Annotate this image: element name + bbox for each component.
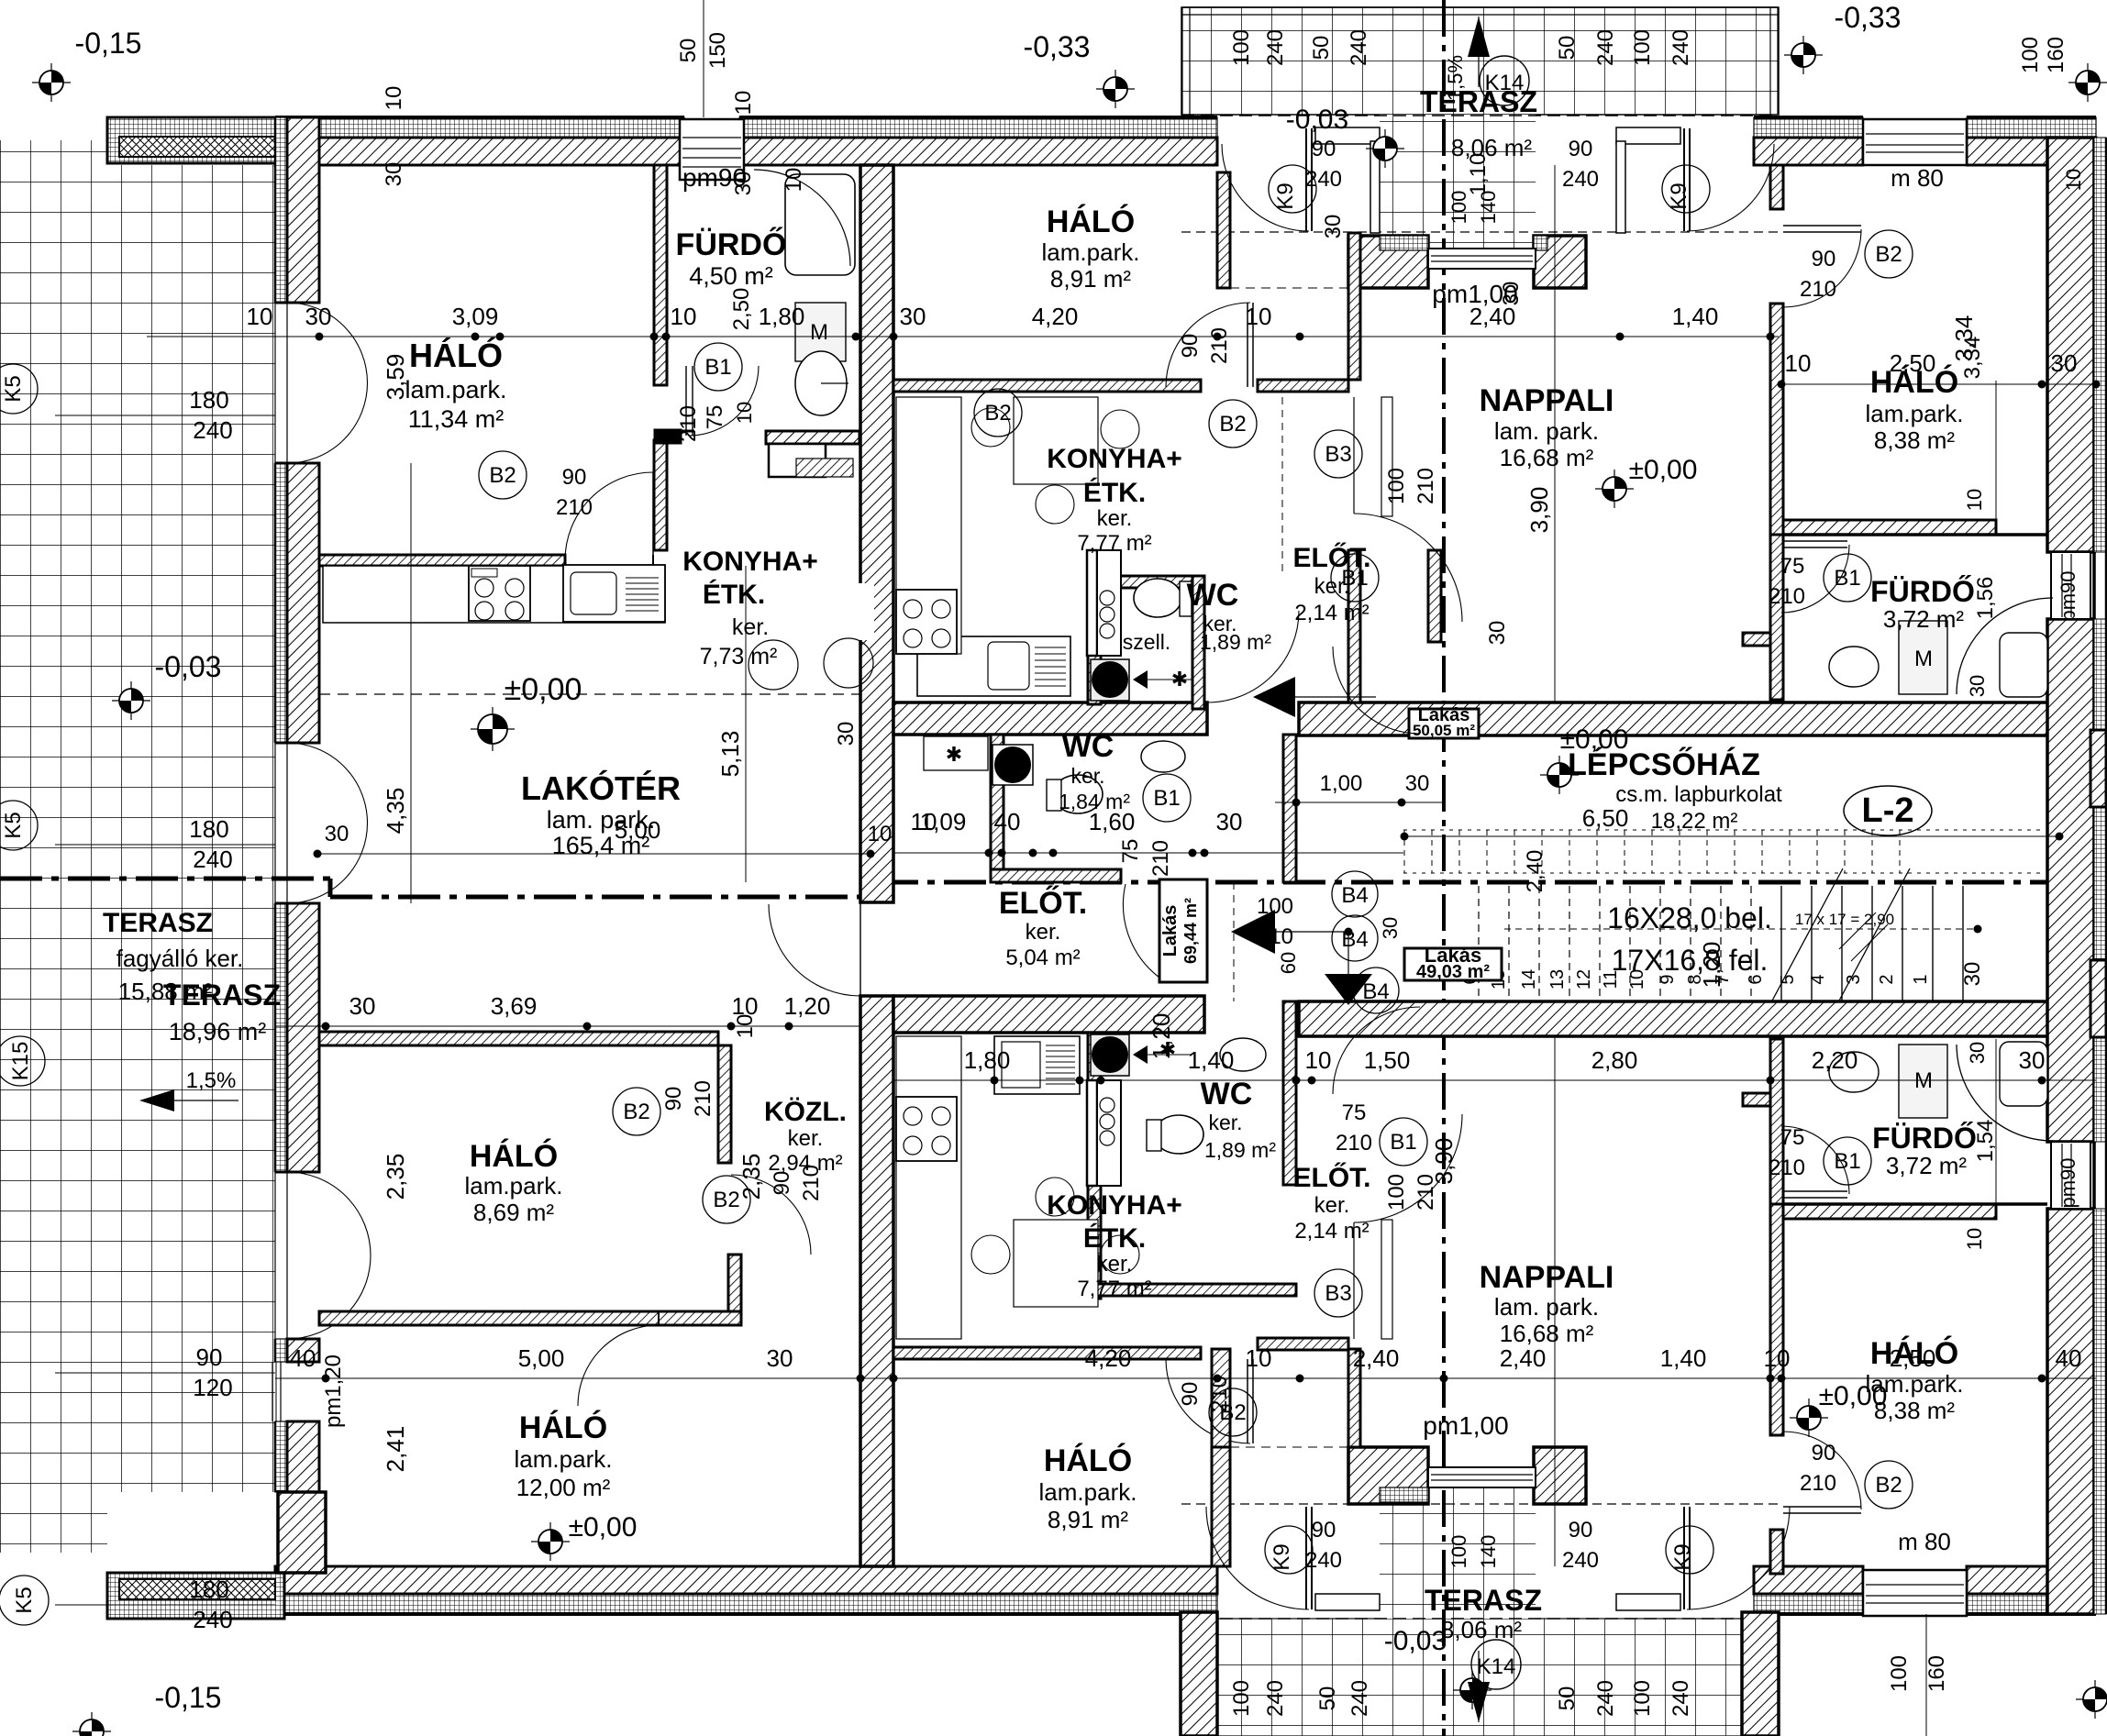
door B3 upper ELOT: [1353, 397, 1355, 514]
svg-text:lam.park.: lam.park.: [1866, 400, 1964, 427]
svg-text:69,44 m²: 69,44 m²: [1181, 898, 1200, 964]
svg-text:KONYHA+: KONYHA+: [1047, 1190, 1182, 1221]
svg-text:210: 210: [799, 1165, 824, 1201]
svg-text:10: 10: [2062, 169, 2085, 191]
svg-text:90: 90: [1312, 137, 1336, 161]
svg-text:B2: B2: [1875, 242, 1902, 267]
svg-text:210: 210: [1414, 1174, 1438, 1211]
svg-text:2,35: 2,35: [382, 1154, 409, 1200]
svg-text:30: 30: [767, 1344, 793, 1372]
svg-text:240: 240: [193, 416, 232, 444]
svg-text:HÁLÓ: HÁLÓ: [409, 336, 503, 374]
bottom-left corner block: [278, 1492, 326, 1573]
svg-text:18,96 m²: 18,96 m²: [169, 1018, 267, 1045]
svg-text:B2: B2: [489, 463, 516, 488]
svg-text:fagyálló ker.: fagyálló ker.: [116, 945, 244, 972]
central wall x938: [860, 165, 893, 902]
corridor wall upper: [893, 702, 1207, 735]
svg-text:240: 240: [1263, 29, 1288, 66]
dim chain wc upper y930: [893, 852, 1403, 854]
svg-text:8,06 m²: 8,06 m²: [1441, 1616, 1522, 1643]
svg-text:30: 30: [1321, 215, 1346, 239]
dim chain y1178 right: [1444, 1079, 2096, 1081]
svg-text:B2: B2: [1875, 1473, 1902, 1498]
svg-text:4,20: 4,20: [1085, 1344, 1132, 1372]
wall HALO891/KONYHA upper: [893, 380, 1201, 392]
svg-text:10: 10: [382, 86, 406, 111]
svg-text:ker.: ker.: [1097, 506, 1133, 531]
basin WC lower: [1220, 1038, 1266, 1071]
svg-text:50: 50: [1555, 1686, 1580, 1711]
K5/K15 circles left edge: [0, 364, 38, 414]
svg-text:2,40: 2,40: [1353, 1344, 1400, 1372]
basin right upper: [1829, 647, 1879, 687]
svg-text:90: 90: [1569, 137, 1593, 161]
divider NAPPALI/HALO upper right: [1770, 165, 1783, 209]
dim chain lower flat y1503: [275, 1377, 2096, 1379]
door arc lower front: [1123, 884, 1159, 978]
svg-text:160: 160: [1924, 1655, 1949, 1692]
door B2 KOZL->HALO869: [731, 1175, 811, 1255]
svg-text:180: 180: [189, 1576, 228, 1603]
svg-text:5,13: 5,13: [716, 731, 744, 778]
svg-text:100: 100: [1887, 1655, 1912, 1692]
svg-text:ker.: ker.: [1070, 764, 1104, 788]
svg-text:75: 75: [1342, 1100, 1367, 1125]
svg-text:140: 140: [1477, 191, 1500, 225]
svg-text:B2: B2: [984, 401, 1011, 426]
svg-text:1,10: 1,10: [1466, 153, 1491, 196]
svg-text:240: 240: [193, 846, 232, 873]
svg-text:lam.park.: lam.park.: [515, 1445, 613, 1473]
svg-text:ÉTK.: ÉTK.: [703, 579, 765, 610]
svg-text:210: 210: [1336, 1131, 1372, 1155]
svg-text:B1: B1: [1834, 566, 1860, 591]
svg-text:B1: B1: [704, 355, 731, 380]
svg-text:TERASZ: TERASZ: [103, 908, 213, 938]
Lakas 50,05 box: [1409, 709, 1479, 738]
door B2 left flat: [652, 555, 654, 566]
svg-text:210: 210: [1769, 1155, 1805, 1180]
svg-text:4,50 m²: 4,50 m²: [689, 262, 773, 290]
svg-text:10: 10: [1305, 1046, 1332, 1074]
svg-text:2,35: 2,35: [737, 1154, 765, 1200]
svg-text:K15: K15: [8, 1042, 33, 1081]
basin left furdo: [795, 351, 847, 415]
bottom terrace side walls: [1181, 1612, 1217, 1736]
door B2 lower HALO891: [1247, 1359, 1248, 1443]
svg-text:2: 2: [1877, 974, 1897, 984]
svg-text:10: 10: [1963, 1228, 1986, 1250]
toilet stair WC upper: [1053, 775, 1103, 813]
door B1 ELOT->WC lower: [1333, 1007, 1420, 1094]
svg-text:B1: B1: [1341, 566, 1368, 591]
svg-text:1,40: 1,40: [1188, 1046, 1235, 1074]
svg-text:90: 90: [1569, 1518, 1593, 1542]
svg-text:90: 90: [562, 465, 587, 490]
svg-text:2,80: 2,80: [1591, 1046, 1638, 1074]
svg-text:8,69 m²: 8,69 m²: [473, 1199, 554, 1226]
svg-text:ker.: ker.: [1026, 920, 1061, 945]
svg-text:90: 90: [770, 1171, 794, 1196]
door B2 right upper: [1783, 225, 1861, 227]
svg-text:1,00: 1,00: [1320, 771, 1363, 796]
K14 circle top: [1480, 56, 1529, 105]
terrace recess bottom stubs: [1212, 1447, 1230, 1566]
vertical piece lower recess: [1212, 1349, 1230, 1447]
divider NAPPALI/HALO lower right: [1770, 1530, 1783, 1574]
Lakas 49,03 box: [1404, 948, 1502, 980]
window m80 top-right: [1863, 119, 1967, 165]
door B1 right upper: [1783, 540, 1847, 542]
svg-text:160: 160: [2044, 37, 2068, 73]
door O3: [274, 1172, 276, 1339]
FURDO left wall: [654, 165, 667, 385]
svg-text:-0,03: -0,03: [1384, 1626, 1447, 1656]
svg-text:11,34 m²: 11,34 m²: [408, 405, 505, 433]
svg-text:B1: B1: [1834, 1149, 1860, 1174]
kitchen sink upper flat: [917, 636, 1070, 696]
door O1: [274, 303, 276, 463]
terrace recess top stubs: [1217, 172, 1230, 288]
K9 circles: [1269, 165, 1316, 213]
corridor wall lower: [893, 996, 1204, 1033]
svg-text:8,06 m²: 8,06 m²: [1451, 134, 1532, 161]
svg-text:B4: B4: [1341, 883, 1368, 908]
svg-text:10: 10: [1764, 1344, 1791, 1372]
window m80 bottom-right: [1863, 1570, 1967, 1616]
svg-text:30: 30: [900, 303, 926, 330]
svg-text:✱: ✱: [946, 743, 962, 766]
svg-text:FÜRDŐ: FÜRDŐ: [1870, 575, 1975, 608]
svg-text:m 80: m 80: [1891, 164, 1944, 192]
svg-text:-0,03: -0,03: [1286, 105, 1348, 135]
svg-text:L-2: L-2: [1862, 791, 1914, 830]
table left flat: [787, 583, 874, 640]
slope triangle top: [1468, 17, 1490, 57]
KOZL walls lower-left flat: [319, 1032, 718, 1045]
svg-text:ker.: ker.: [788, 1126, 824, 1151]
svg-text:240: 240: [1305, 1548, 1342, 1573]
shower right lower: [1957, 1045, 2053, 1141]
svg-text:30: 30: [2019, 1046, 2046, 1074]
svg-text:10: 10: [1785, 349, 1812, 377]
svg-text:1,20: 1,20: [784, 992, 831, 1020]
door B1 ELOT->WC upper: [1333, 647, 1420, 734]
svg-text:75: 75: [1118, 839, 1143, 864]
svg-text:40: 40: [290, 1344, 316, 1372]
svg-text:100: 100: [1630, 29, 1655, 66]
svg-text:150: 150: [705, 32, 730, 69]
svg-text:1,60: 1,60: [1089, 808, 1136, 835]
svg-text:B2: B2: [623, 1100, 649, 1124]
svg-text:75: 75: [1780, 1125, 1805, 1150]
svg-text:-0,33: -0,33: [1024, 30, 1091, 63]
entry arrow lower left: [1231, 910, 1275, 954]
svg-text:210: 210: [1800, 1471, 1836, 1496]
svg-text:1,20: 1,20: [1698, 942, 1725, 989]
ELOT walls lower: [1348, 1349, 1360, 1447]
svg-text:16,68 m²: 16,68 m²: [1500, 444, 1594, 471]
svg-text:30: 30: [325, 822, 349, 846]
svg-text:3,34: 3,34: [1950, 315, 1978, 362]
svg-text:7,77 m²: 7,77 m²: [1077, 1277, 1151, 1301]
svg-text:16X28,0 bel.: 16X28,0 bel.: [1607, 901, 1772, 934]
right wall window pm90 lower: [2051, 1142, 2090, 1209]
K9 door top-left: [1305, 128, 1307, 231]
section line horizontal: [0, 877, 330, 881]
svg-text:4,35: 4,35: [382, 788, 409, 835]
svg-text:HÁLÓ: HÁLÓ: [1044, 1443, 1132, 1478]
svg-text:2,41: 2,41: [382, 1426, 409, 1473]
svg-text:90: 90: [1812, 1441, 1836, 1465]
dim chain right flat y419: [1779, 383, 2096, 385]
svg-text:lam.park.: lam.park.: [465, 1172, 563, 1200]
dim chain upper flat y367: [147, 336, 1779, 337]
top outer wall: [275, 117, 684, 138]
svg-text:3,69: 3,69: [491, 992, 538, 1020]
svg-text:6,50: 6,50: [1582, 804, 1629, 832]
svg-text:16,68 m²: 16,68 m²: [1500, 1320, 1594, 1347]
right outer wall: [2047, 138, 2094, 552]
svg-text:2,40: 2,40: [1500, 1344, 1547, 1372]
door O2: [274, 743, 276, 903]
svg-text:HÁLÓ: HÁLÓ: [519, 1410, 607, 1445]
slope triangle bottom: [1468, 1682, 1490, 1722]
svg-text:10: 10: [731, 91, 756, 116]
svg-text:K14: K14: [1485, 71, 1525, 95]
svg-text:30: 30: [1379, 917, 1402, 939]
door B1 furdo: [685, 366, 687, 436]
svg-text:5,00: 5,00: [518, 1344, 565, 1372]
svg-text:240: 240: [1669, 29, 1693, 66]
svg-text:1,80: 1,80: [964, 1046, 1011, 1074]
ELOT walls upper: [1348, 233, 1360, 380]
svg-text:1,20: 1,20: [1148, 1013, 1175, 1060]
K9 door bottom-right: [1683, 1507, 1685, 1609]
svg-text:50: 50: [1555, 36, 1580, 61]
door arc upper front: [1207, 611, 1299, 702]
svg-text:90: 90: [1312, 1518, 1336, 1542]
table chairs lower flat: [1014, 1220, 1098, 1307]
FURDO right lower walls: [1770, 1039, 1783, 1204]
svg-text:30: 30: [731, 171, 756, 196]
svg-text:M: M: [1914, 647, 1933, 671]
svg-text:30: 30: [1966, 1042, 1989, 1064]
door B2 right lower: [1783, 1506, 1861, 1508]
marker bottom center: [1453, 1671, 1492, 1709]
svg-text:1,54: 1,54: [1973, 1120, 1998, 1163]
svg-text:KÖZL.: KÖZL.: [764, 1097, 847, 1127]
WC flat lower walls: [1088, 1033, 1101, 1299]
svg-text:ker.: ker.: [1314, 1193, 1350, 1218]
terrace door pm100 top: [1428, 249, 1536, 269]
svg-text:30: 30: [1960, 962, 1985, 987]
svg-text:30: 30: [2051, 349, 2078, 377]
svg-text:120: 120: [193, 1374, 232, 1401]
kitchen counter lower flat: [896, 1036, 961, 1339]
svg-text:pm1,00: pm1,00: [1423, 1411, 1508, 1440]
svg-text:B2: B2: [713, 1188, 739, 1212]
svg-text:5,00: 5,00: [615, 816, 661, 844]
svg-text:30: 30: [1499, 282, 1524, 306]
svg-text:100: 100: [1229, 1680, 1254, 1717]
shower left furdo: [754, 170, 850, 266]
svg-text:13: 13: [1547, 969, 1568, 990]
svg-text:FÜRDŐ: FÜRDŐ: [676, 227, 787, 262]
B4 circles: [1332, 871, 1378, 917]
door B3 lower ELOT: [1353, 1222, 1355, 1339]
toilet WC upper flat: [1134, 579, 1181, 617]
szell fan blob upper: [1091, 659, 1129, 701]
svg-text:30: 30: [382, 162, 406, 187]
svg-text:4: 4: [1808, 974, 1828, 984]
svg-text:2,40: 2,40: [1523, 850, 1547, 893]
svg-text:1,40: 1,40: [1660, 1344, 1707, 1372]
svg-text:WC: WC: [1201, 1077, 1253, 1111]
svg-text:±0,00: ±0,00: [505, 672, 582, 707]
svg-text:240: 240: [1562, 167, 1599, 192]
svg-text:100: 100: [1630, 1680, 1655, 1717]
svg-text:lam. park.: lam. park.: [1494, 417, 1599, 445]
svg-text:30: 30: [1966, 675, 1989, 697]
svg-text:10: 10: [733, 402, 756, 424]
svg-text:lam.park.: lam.park.: [405, 376, 506, 404]
svg-text:3,09: 3,09: [452, 303, 499, 330]
svg-text:100: 100: [1447, 191, 1470, 225]
svg-text:30: 30: [305, 303, 332, 330]
svg-text:10: 10: [671, 303, 697, 330]
basin stair WC upper: [1141, 741, 1185, 772]
svg-text:2,50: 2,50: [729, 288, 754, 331]
svg-text:30: 30: [1405, 771, 1430, 796]
svg-text:TERASZ: TERASZ: [1425, 1584, 1542, 1617]
svg-text:240: 240: [1347, 1680, 1372, 1717]
right wall window pm90 upper: [2051, 552, 2090, 619]
svg-text:90: 90: [1178, 1382, 1203, 1407]
svg-text:B4: B4: [1362, 979, 1389, 1004]
left facade piers: [275, 117, 287, 303]
svg-text:lam. park.: lam. park.: [1494, 1293, 1599, 1321]
staircase treads: [1962, 886, 1964, 1001]
svg-text:✱: ✱: [1171, 668, 1188, 691]
svg-text:210: 210: [1414, 468, 1438, 504]
svg-text:12: 12: [1574, 969, 1594, 990]
svg-text:2,50: 2,50: [1890, 349, 1936, 377]
svg-text:180: 180: [189, 815, 228, 843]
entry arrow lower down: [1325, 974, 1372, 1005]
M washer left furdo: [795, 303, 846, 361]
svg-text:1,09: 1,09: [920, 808, 967, 835]
svg-text:LAKÓTÉR: LAKÓTÉR: [521, 768, 681, 807]
svg-text:KONYHA+: KONYHA+: [1047, 444, 1182, 474]
svg-text:B1: B1: [1153, 786, 1180, 811]
svg-text:8,38 m²: 8,38 m²: [1874, 426, 1955, 454]
vertical dim chains: [410, 463, 412, 903]
svg-text:10: 10: [247, 303, 273, 330]
svg-text:40: 40: [994, 808, 1021, 835]
dim chain wc lower y1178: [893, 1079, 1444, 1081]
svg-text:10: 10: [782, 168, 806, 193]
svg-text:12,00 m²: 12,00 m²: [516, 1474, 611, 1501]
svg-text:17 x 17 = 2,90: 17 x 17 = 2,90: [1795, 911, 1894, 928]
kitchen counter left flat: [323, 566, 665, 623]
svg-text:10: 10: [1963, 489, 1986, 511]
stove lower flat: [896, 1097, 957, 1161]
svg-text:10: 10: [868, 822, 893, 846]
svg-text:30: 30: [834, 722, 859, 746]
K9 door bottom-left: [1305, 1507, 1307, 1609]
svg-text:FÜRDŐ: FÜRDŐ: [1872, 1122, 1977, 1155]
svg-text:30: 30: [1485, 621, 1510, 646]
FURDO right upper walls: [1770, 535, 1783, 700]
svg-text:ELŐT.: ELŐT.: [999, 886, 1087, 921]
svg-text:40: 40: [2056, 1344, 2082, 1372]
svg-text:K9: K9: [1667, 182, 1691, 209]
svg-text:K9: K9: [1273, 182, 1298, 209]
svg-text:szell.: szell.: [1123, 630, 1170, 654]
svg-text:1,80: 1,80: [759, 303, 805, 330]
svg-text:ker.: ker.: [1208, 1111, 1242, 1134]
drain blob lower: [1091, 1034, 1129, 1076]
upper flight dashes: [1403, 830, 1405, 873]
svg-text:HÁLÓ: HÁLÓ: [470, 1139, 558, 1174]
svg-text:ker.: ker.: [732, 614, 769, 640]
svg-text:pm1,20: pm1,20: [321, 1355, 346, 1428]
svg-text:B2: B2: [1219, 412, 1246, 437]
svg-text:WC: WC: [1062, 729, 1114, 764]
svg-text:140: 140: [1477, 1535, 1500, 1569]
furdo lower partition: [766, 431, 859, 444]
svg-text:90: 90: [196, 1343, 223, 1371]
svg-text:K5: K5: [1, 375, 26, 402]
svg-text:NAPPALI: NAPPALI: [1480, 383, 1614, 418]
svg-text:100: 100: [1257, 894, 1293, 919]
svg-text:K9: K9: [1670, 1543, 1695, 1570]
svg-text:K5: K5: [12, 1587, 37, 1613]
svg-text:3,72 m²: 3,72 m²: [1883, 605, 1964, 633]
svg-text:pm90: pm90: [2057, 1157, 2079, 1208]
svg-text:50: 50: [1315, 1686, 1340, 1711]
svg-text:B3: B3: [1325, 1281, 1351, 1306]
svg-text:2,14 m²: 2,14 m²: [1294, 601, 1369, 625]
stair break line: [1771, 868, 1843, 1002]
svg-text:17X16,8 fel.: 17X16,8 fel.: [1612, 944, 1769, 977]
svg-text:7,73 m²: 7,73 m²: [700, 644, 778, 669]
svg-text:10: 10: [1246, 303, 1272, 330]
stove upper flat: [896, 590, 957, 654]
toilet WC lower flat: [1154, 1115, 1203, 1154]
door B1 right lower: [1783, 1190, 1847, 1192]
svg-text:100: 100: [2018, 37, 2043, 73]
svg-text:8,91 m²: 8,91 m²: [1050, 265, 1131, 293]
svg-text:210: 210: [556, 495, 593, 520]
svg-text:240: 240: [1669, 1680, 1693, 1717]
svg-text:-0,15: -0,15: [155, 1681, 222, 1714]
svg-text:ELŐT.: ELŐT.: [1292, 1162, 1370, 1193]
svg-text:ker.: ker.: [1097, 1252, 1133, 1277]
table chairs upper flat: [1014, 397, 1098, 484]
svg-text:KONYHA+: KONYHA+: [682, 547, 818, 577]
svg-text:30: 30: [349, 992, 376, 1020]
svg-text:240: 240: [1305, 167, 1342, 192]
svg-text:-0,15: -0,15: [75, 27, 142, 60]
door B2 upper HALO891: [1247, 303, 1248, 387]
svg-text:lam.park.: lam.park.: [1042, 238, 1140, 266]
dim chain kozl y1119: [275, 1025, 860, 1027]
svg-text:240: 240: [1593, 29, 1618, 66]
svg-text:90: 90: [1178, 334, 1203, 359]
